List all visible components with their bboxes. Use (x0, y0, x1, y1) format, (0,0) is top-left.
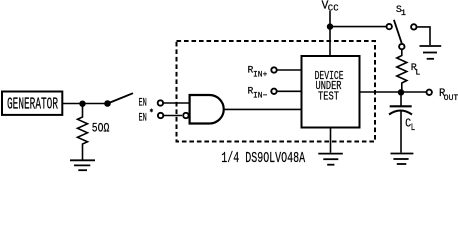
switch SW blade (104, 93, 133, 107)
dashed box 1/4 DS90LV048A (177, 41, 376, 142)
svg-text:TEST: TEST (318, 90, 339, 104)
wire S1 to ground (417, 27, 430, 45)
ground (left, below 50 ohm) (70, 160, 95, 170)
terminal ROUT (427, 88, 458, 103)
ground (below DUT) (318, 154, 343, 165)
svg-text:1/4 DS9OLVO48A: 1/4 DS9OLVO48A (221, 151, 305, 167)
terminal RIN- (248, 85, 277, 100)
svg-text:L: L (415, 69, 420, 78)
svg-text:IN+: IN+ (253, 71, 268, 80)
wire RIN+ to DUT (277, 69, 301, 71)
resistor 50 ohm (78, 104, 110, 160)
svg-text:EN: EN (139, 113, 147, 125)
wire RIN- to DUT (277, 90, 301, 92)
svg-text:GENERATOR: GENERATOR (7, 96, 58, 114)
svg-text:IN−: IN− (253, 92, 268, 101)
ground (below CL) (391, 154, 414, 165)
device under test box (302, 56, 360, 128)
node junction at 50 ohm tap (79, 101, 85, 107)
node output junction (398, 89, 404, 95)
svg-text:5OΩ: 5OΩ (92, 122, 110, 136)
wire EN* to gate bubble (163, 115, 182, 117)
svg-text:1: 1 (401, 8, 406, 18)
terminal EN* (139, 109, 164, 125)
resistor RL (397, 49, 421, 92)
capacitor CL (389, 92, 415, 152)
terminal RIN+ (248, 64, 277, 79)
wire DUT bottom to ground (330, 128, 332, 153)
wire EN to gate (163, 102, 190, 104)
generator box (2, 92, 62, 115)
terminal EN (139, 98, 164, 110)
switch S1 (387, 5, 417, 50)
VCC label (322, 0, 340, 14)
wire DUT to ROUT (360, 91, 427, 93)
node VCC junction (327, 23, 333, 29)
wire VCC down to DUT (329, 11, 331, 56)
wire gate output to DUT (224, 108, 301, 110)
wire generator to switch (63, 103, 108, 105)
ground (S1) (420, 46, 442, 59)
svg-text:EN: EN (139, 98, 147, 110)
wire VCC to S1 (330, 26, 387, 28)
svg-text:L: L (411, 122, 415, 133)
svg-text:OUT: OUT (444, 94, 458, 103)
and-gate U1 (183, 95, 224, 124)
